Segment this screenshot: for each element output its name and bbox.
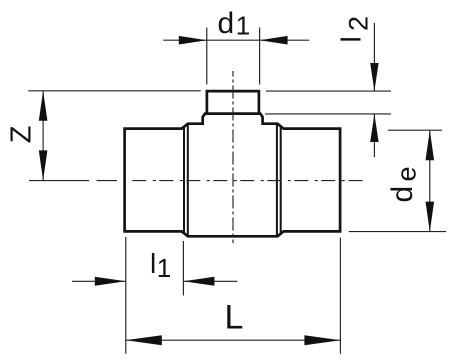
dimension L extension line right [339, 238, 341, 354]
label de [386, 166, 422, 202]
dimension l1 right arrow [183, 277, 214, 286]
dimension de top arrow [426, 130, 435, 160]
svg-text:l: l [336, 36, 367, 42]
svg-text:d: d [386, 186, 419, 203]
svg-text:L: L [225, 299, 244, 337]
dimension l2 bottom arrow [370, 114, 378, 142]
horizontal centerline [29, 180, 363, 182]
dimension l2 top arrow [370, 63, 378, 91]
dimension d1 right arrow [260, 36, 288, 45]
dimension Z extension line [28, 90, 200, 92]
dimension d1 extension lines [207, 28, 260, 85]
dimension Z line [42, 91, 44, 181]
svg-text:1: 1 [236, 11, 250, 41]
svg-text:2: 2 [344, 16, 374, 31]
label l1 [150, 248, 171, 283]
dimension d1 left arrow [179, 36, 207, 45]
vertical centerline [232, 71, 234, 243]
svg-text:Z: Z [6, 125, 38, 143]
fitting body outline [125, 114, 341, 237]
dimension l2 line [373, 23, 375, 157]
dimension L line [126, 339, 341, 341]
branch collar [207, 91, 259, 114]
svg-text:l: l [150, 248, 156, 279]
left socket joint lines [184, 124, 188, 235]
dimension Z top arrow [39, 91, 48, 121]
dimension de bottom arrow [426, 202, 435, 232]
dimension l1 extension lines [126, 237, 184, 354]
label d1 [218, 7, 251, 41]
dimension de line [429, 130, 431, 231]
dimension Z bottom arrow [39, 150, 48, 180]
dimension l2 extension lines [265, 91, 391, 114]
dimension d1 line [163, 39, 309, 41]
svg-text:e: e [392, 166, 422, 181]
label l2 [336, 16, 374, 43]
svg-text:d: d [218, 7, 235, 40]
right socket joint lines [277, 124, 281, 235]
dimension L left arrow [126, 335, 162, 345]
dimension de extension lines [349, 130, 446, 231]
dimension l1 line left tail [72, 280, 238, 282]
svg-text:1: 1 [157, 253, 171, 283]
dimension l1 left arrow [95, 277, 126, 286]
dimension L right arrow [304, 335, 340, 345]
